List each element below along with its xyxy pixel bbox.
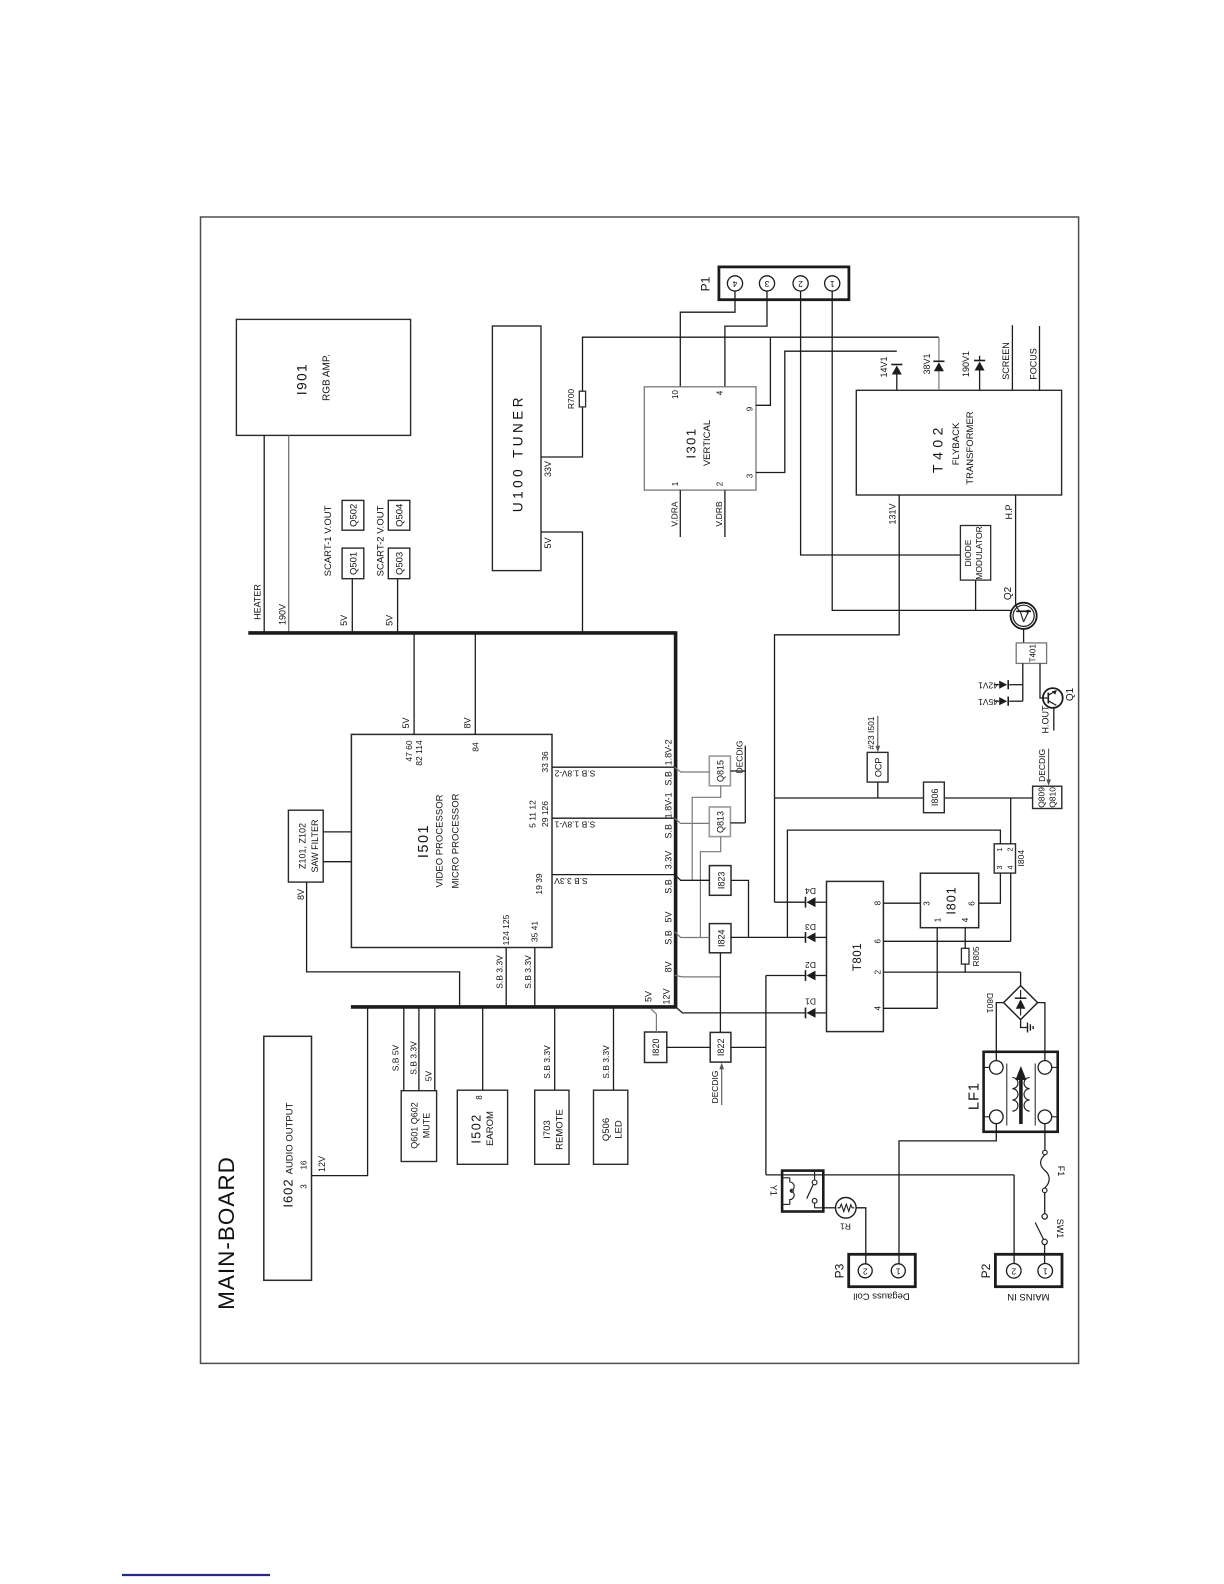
IC I602 AUDIO OUTPUT — [264, 1036, 312, 1280]
svg-text:P3: P3 — [833, 1263, 847, 1278]
block OCP — [867, 752, 888, 782]
svg-text:T401: T401 — [1029, 644, 1038, 663]
diode D4 — [775, 901, 806, 903]
svg-text:I501: I501 — [416, 824, 432, 858]
svg-text:5V: 5V — [543, 537, 553, 548]
wire I501 pins 19/39 to bus (S.B 3.3V) — [552, 874, 675, 876]
coil LF1 right winding — [1034, 1064, 1036, 1126]
wire S.B 3.3V to MUTE — [418, 1007, 420, 1091]
svg-text:45V1: 45V1 — [978, 697, 998, 707]
svg-text:82 114: 82 114 — [414, 740, 424, 766]
svg-text:R700: R700 — [566, 389, 576, 410]
svg-text:P2: P2 — [979, 1263, 993, 1278]
border frame — [201, 217, 1079, 1363]
wire DECDIG arrow into I822 — [721, 1066, 723, 1105]
svg-text:S.B 1.8V-2: S.B 1.8V-2 — [554, 769, 595, 779]
wire D2 node down to relay feed — [765, 976, 767, 1175]
svg-text:Q1: Q1 — [1065, 687, 1076, 701]
svg-text:I824: I824 — [716, 929, 726, 947]
svg-text:190V1: 190V1 — [961, 351, 971, 377]
svg-text:1: 1 — [934, 917, 943, 922]
svg-text:10: 10 — [671, 390, 680, 399]
wire S.B 1.8V-2 tap to Q815 — [675, 767, 710, 772]
wire I804 pin 1 feed from D3 node — [787, 830, 1000, 937]
wire SAW to I501 (lower) — [323, 861, 351, 863]
wire 33V line A (R700 to 38V1) — [583, 337, 939, 391]
wire D801 right vertex to LF1 — [1038, 1003, 1045, 1061]
svg-text:T801: T801 — [852, 943, 864, 971]
svg-text:2: 2 — [716, 481, 725, 486]
wire diode modulator to Q2 base line — [975, 580, 977, 610]
diode 42V1 — [1009, 684, 1023, 686]
svg-text:H.OUT: H.OUT — [1041, 705, 1051, 734]
transistor Q2 — [1011, 603, 1037, 629]
svg-text:SAW FILTER: SAW FILTER — [310, 819, 320, 873]
svg-text:D1: D1 — [805, 996, 816, 1006]
svg-text:4: 4 — [732, 279, 737, 289]
svg-text:I801: I801 — [944, 886, 958, 914]
svg-text:S.B 3.3V: S.B 3.3V — [408, 1041, 418, 1075]
svg-text:H.P: H.P — [1004, 504, 1014, 519]
svg-text:#23 I501: #23 I501 — [866, 716, 876, 749]
svg-text:D801: D801 — [985, 993, 995, 1014]
svg-text:Q502: Q502 — [349, 504, 360, 527]
svg-text:TRANSFORMER: TRANSFORMER — [965, 411, 976, 485]
svg-text:Y1: Y1 — [769, 1185, 779, 1196]
bus S.B vertical — [674, 631, 678, 1008]
wire Q813 out to DECDIG node — [730, 822, 745, 824]
wire 33V from tuner to R700 — [541, 407, 583, 457]
wire DECDIG node vertical (Q815/Q813) — [744, 746, 746, 823]
transistor Q504 — [388, 500, 410, 530]
diode D2 — [766, 975, 805, 977]
svg-text:D4: D4 — [805, 886, 816, 896]
svg-text:MAINS IN: MAINS IN — [1007, 1291, 1049, 1302]
wire I820 to I822 — [667, 1046, 710, 1048]
svg-text:19 39: 19 39 — [534, 873, 544, 895]
svg-text:8: 8 — [874, 900, 883, 905]
svg-text:35 41: 35 41 — [530, 921, 540, 943]
wire 8V tap to I824/I822 link — [675, 975, 721, 977]
wire H.P from T402 to Q2 — [1015, 495, 1017, 606]
svg-text:Q501: Q501 — [349, 552, 360, 575]
svg-text:VERTICAL: VERTICAL — [702, 420, 713, 466]
svg-text:2: 2 — [874, 969, 883, 974]
wire LF1 bottom-right to fuse F1 — [1044, 1124, 1046, 1151]
svg-text:5V: 5V — [643, 991, 653, 1002]
wire 5V bus to I501 pins 47/60/82/114 — [413, 633, 415, 735]
pin 1 of P3 — [891, 1264, 905, 1278]
svg-text:5V: 5V — [384, 615, 394, 626]
fuse F1 — [1043, 1150, 1048, 1155]
bus S.B horizontal (lower) — [351, 1005, 676, 1009]
svg-text:38V1: 38V1 — [922, 353, 932, 374]
svg-text:R805: R805 — [971, 946, 981, 967]
wire D801 left vertex to LF1 — [996, 1003, 1003, 1061]
svg-text:12V: 12V — [661, 988, 671, 1004]
wire F1 to SW1 — [1044, 1193, 1046, 1214]
diode 45V1 — [1009, 700, 1023, 702]
svg-text:3.3V: 3.3V — [664, 851, 674, 870]
wire relay feed line (I822 node through Y1 to P2 pin2) — [766, 1174, 1014, 1176]
svg-text:4: 4 — [874, 1006, 883, 1011]
svg-text:3: 3 — [995, 865, 1004, 869]
svg-text:REMOTE: REMOTE — [555, 1109, 566, 1150]
svg-text:1: 1 — [671, 481, 680, 486]
svg-text:S.B: S.B — [664, 879, 674, 894]
IC I301 VERTICAL — [644, 387, 756, 490]
svg-text:TUNER: TUNER — [511, 394, 526, 458]
svg-text:I602: I602 — [280, 1178, 295, 1207]
wire FOCUS — [1039, 326, 1041, 390]
svg-text:SW1: SW1 — [1055, 1219, 1065, 1239]
wire SAW to I501 (upper) — [323, 831, 351, 833]
transistor Q501 — [342, 548, 364, 579]
svg-text:124 125: 124 125 — [501, 914, 511, 945]
svg-text:1.8V-1: 1.8V-1 — [664, 792, 674, 818]
svg-text:Z101, Z102: Z101, Z102 — [297, 823, 307, 869]
wire I824 bottom to I822 — [719, 953, 721, 1033]
block I901 RGB AMP — [236, 319, 410, 435]
svg-text:I502: I502 — [469, 1113, 483, 1143]
svg-text:16: 16 — [299, 1160, 308, 1169]
svg-text:Degauss Coil: Degauss Coil — [853, 1290, 910, 1301]
wire I822 out to relay line — [731, 1046, 766, 1048]
svg-text:SCART-2 V.OUT: SCART-2 V.OUT — [376, 505, 387, 576]
svg-text:S.B 3.3V: S.B 3.3V — [554, 876, 588, 886]
wire Q815 out to DECDIG node — [730, 770, 745, 772]
switch SW1 — [1042, 1214, 1047, 1219]
svg-text:FOCUS: FOCUS — [1029, 348, 1039, 380]
wire R1 to P3 pin2 — [856, 1208, 866, 1264]
svg-text:I901: I901 — [295, 363, 310, 395]
wire T401 left pin down (42V1/45V1 node) — [1022, 663, 1024, 701]
svg-text:5V: 5V — [401, 717, 411, 728]
wire S.B 5V to MUTE — [403, 1007, 405, 1091]
wire P1-1 to Q2 base — [832, 291, 1011, 610]
svg-text:12V: 12V — [317, 1156, 327, 1172]
wire I501 pins 124/125 to S.B bus — [505, 948, 507, 1007]
transistor Q815 — [709, 756, 730, 786]
svg-text:4: 4 — [1005, 865, 1014, 869]
svg-text:DECDIG: DECDIG — [735, 740, 745, 773]
svg-text:VIDEO PROCESSOR: VIDEO PROCESSOR — [435, 794, 446, 887]
wire Q501 5V to bus — [351, 579, 353, 633]
transformer T801 — [827, 881, 884, 1031]
block I804 — [994, 844, 1015, 873]
svg-text:5 11 12: 5 11 12 — [527, 800, 537, 828]
transistor Q813 — [709, 807, 730, 837]
wire R805 to T801 pin 2 line — [964, 964, 966, 972]
svg-text:4: 4 — [716, 390, 725, 395]
resistor R700 — [579, 391, 585, 407]
svg-text:3: 3 — [746, 473, 755, 478]
wire I804 pin 2 from OCP line — [1010, 798, 1012, 844]
svg-text:33 36: 33 36 — [540, 751, 550, 773]
svg-text:8V: 8V — [296, 889, 306, 900]
svg-text:I823: I823 — [716, 872, 726, 890]
svg-text:P1: P1 — [699, 276, 713, 291]
svg-text:5V: 5V — [339, 615, 349, 626]
svg-text:42V1: 42V1 — [978, 680, 998, 690]
svg-text:DIODE: DIODE — [963, 539, 973, 566]
wire I501 pin 33/36 to bus (S.B 1.8V-2) — [552, 766, 675, 768]
wire T401 right pin to Q1 base — [1040, 663, 1043, 698]
svg-text:6: 6 — [874, 939, 883, 944]
wire I501 pins 35/41 to S.B bus — [534, 948, 536, 1007]
block I820 — [645, 1032, 667, 1063]
block I823 — [709, 866, 731, 896]
terminal LF1 bottom-right — [1038, 1110, 1052, 1124]
switch contact of Y1 — [814, 1172, 816, 1180]
wire SCREEN — [1011, 325, 1013, 390]
transistor Q503 — [388, 548, 410, 579]
svg-text:Q503: Q503 — [395, 552, 406, 575]
svg-text:I820: I820 — [651, 1039, 661, 1057]
svg-text:3: 3 — [299, 1184, 308, 1189]
wire Q503 5V to bus — [397, 579, 399, 633]
wire S.B 5V tap to I824 — [675, 932, 710, 938]
svg-text:MICRO PROCESSOR: MICRO PROCESSOR — [451, 793, 462, 888]
resistor R805 — [961, 948, 969, 964]
wire 12V tap to D1 line — [676, 1007, 805, 1013]
svg-text:S.B: S.B — [664, 824, 674, 839]
svg-text:8V: 8V — [664, 961, 674, 972]
relay Y1 — [782, 1171, 823, 1212]
transformer T401 — [1016, 643, 1046, 664]
arrow LF1 (energy flow) — [1019, 1076, 1023, 1124]
pin 4 of P1 — [727, 276, 742, 291]
connector P2 MAINS IN — [995, 1254, 1062, 1286]
svg-text:Q810: Q810 — [1048, 787, 1058, 808]
wire Q2 emitter to T401 — [1023, 629, 1025, 643]
svg-text:SCART-1 V.OUT: SCART-1 V.OUT — [323, 505, 334, 576]
diode D1 — [805, 1008, 807, 1019]
diode D3 — [731, 936, 805, 938]
wire S.B 3.3V to I703 — [554, 1007, 556, 1090]
svg-text:8: 8 — [475, 1095, 484, 1100]
svg-text:MAIN-BOARD: MAIN-BOARD — [214, 1156, 239, 1310]
svg-text:S.B 5V: S.B 5V — [391, 1044, 401, 1071]
wire HEATER (I901 to 5V bus) — [263, 435, 265, 633]
svg-text:I703: I703 — [542, 1120, 553, 1139]
connector P1 — [719, 267, 849, 300]
svg-text:2: 2 — [1011, 1267, 1016, 1277]
footer rule (blue) — [122, 1574, 270, 1576]
wire P1-4 to I301 pin 10 — [680, 291, 735, 387]
wire I502 pin 8 to S.B bus — [482, 1007, 484, 1090]
svg-text:S.B: S.B — [664, 930, 674, 945]
wire T801 pin 8 to I801 pin 3 — [883, 902, 920, 904]
svg-text:DECDIG: DECDIG — [1037, 749, 1047, 782]
connector P3 Degauss Coil — [849, 1254, 916, 1286]
wire 8V bus to I501 pin 84 — [474, 633, 476, 735]
wire I801 pin 6 to I804 pin 3 — [979, 873, 1001, 903]
svg-text:1: 1 — [830, 279, 835, 289]
svg-text:LED: LED — [614, 1120, 625, 1139]
svg-text:I301: I301 — [683, 427, 698, 458]
wire Q815 bottom to 3.3V line — [692, 786, 721, 881]
block U100 TUNER — [492, 326, 541, 571]
wire 5V tap to I820 — [651, 1009, 657, 1032]
block Q601 Q602 MUTE — [401, 1091, 436, 1162]
svg-text:LF1: LF1 — [966, 1082, 982, 1110]
wire T801 pin 4 to I801 pin 1 — [883, 928, 937, 1009]
wire P1-2 to diode modulator — [801, 291, 961, 555]
svg-text:33V: 33V — [543, 461, 553, 477]
block I806 — [924, 782, 945, 813]
terminal LF1 bottom-left — [990, 1110, 1004, 1124]
filter Z101 Z102 SAW FILTER — [288, 810, 323, 882]
svg-text:Q813: Q813 — [715, 811, 725, 833]
svg-text:S.B 3.3V: S.B 3.3V — [494, 955, 504, 989]
svg-text:I822: I822 — [716, 1039, 726, 1057]
wire H.OUT from Q1 emitter — [1053, 707, 1055, 731]
terminal LF1 top-right — [1038, 1061, 1052, 1075]
transistor Q502 — [342, 500, 364, 530]
svg-text:Q504: Q504 — [395, 504, 406, 527]
svg-text:4: 4 — [961, 917, 970, 922]
pin 3 of P1 — [759, 276, 774, 291]
svg-text:Q815: Q815 — [715, 760, 725, 782]
svg-text:Q2: Q2 — [1003, 586, 1014, 600]
svg-text:S.B 3.3V: S.B 3.3V — [601, 1045, 611, 1079]
svg-text:29 126: 29 126 — [540, 801, 550, 827]
svg-text:2: 2 — [863, 1267, 868, 1277]
diode 190V1 — [979, 356, 981, 361]
IC I502 EAROM — [457, 1090, 507, 1164]
svg-text:FLYBACK: FLYBACK — [951, 422, 962, 465]
wire V.DRB from I301 pin 2 — [724, 490, 726, 537]
wire P1-3 to I301 pin 4 — [725, 291, 767, 387]
wire OCP to 131V/OCP line — [877, 782, 879, 798]
wire OCP line (131V node to Q809/Q810) — [775, 797, 1033, 799]
wire 8V from SAW filter to S.B bus — [307, 882, 460, 1007]
wire 5V from tuner to bus — [541, 532, 583, 633]
wire S.B 3.3V to Q506 — [613, 1007, 615, 1090]
svg-text:EAROM: EAROM — [485, 1111, 496, 1146]
wire I301 pin 9 to 33V line — [756, 337, 770, 405]
svg-text:Q506: Q506 — [601, 1118, 612, 1141]
bus 5V/supply horizontal (upper) — [248, 631, 675, 635]
svg-text:SCREEN: SCREEN — [1001, 342, 1011, 380]
wire 12V from I602 pin16 to S.B bus — [312, 1007, 368, 1176]
svg-text:F1: F1 — [1056, 1166, 1066, 1177]
svg-text:Q809: Q809 — [1037, 787, 1047, 808]
wire Q813 bottom to 5V line — [700, 837, 720, 938]
svg-text:3: 3 — [923, 901, 932, 906]
block Q506 LED — [594, 1090, 628, 1164]
wire #23 I501 arrow into OCP — [877, 716, 879, 749]
svg-text:47 60: 47 60 — [404, 740, 414, 762]
wire 131V from T402 down-left to D4 feed — [775, 495, 900, 902]
svg-text:S.B: S.B — [664, 771, 674, 786]
pin 1 of P2 — [1038, 1264, 1053, 1279]
svg-text:AUDIO OUTPUT: AUDIO OUTPUT — [285, 1102, 296, 1174]
svg-text:DECDIG: DECDIG — [710, 1070, 720, 1103]
svg-text:6: 6 — [968, 901, 977, 906]
svg-text:V.DRB: V.DRB — [714, 501, 724, 527]
wire SW1 to P2 pin1 — [1044, 1245, 1046, 1264]
wire I801 pin 4 to R805 — [964, 928, 966, 949]
svg-text:S.B 3.3V: S.B 3.3V — [542, 1045, 552, 1079]
svg-text:1: 1 — [995, 847, 1004, 851]
svg-text:2: 2 — [798, 279, 803, 289]
svg-text:T402: T402 — [930, 423, 946, 473]
svg-text:R1: R1 — [840, 1221, 851, 1231]
svg-text:I806: I806 — [930, 789, 940, 807]
IC I501 VIDEO/MICRO PROCESSOR — [351, 734, 552, 947]
svg-text:S.B 1.8V-1: S.B 1.8V-1 — [554, 820, 595, 830]
coil of Y1 — [782, 1177, 790, 1179]
svg-text:MODULATOR: MODULATOR — [974, 526, 984, 580]
block Q809 Q810 — [1033, 786, 1062, 808]
svg-text:14V1: 14V1 — [879, 356, 889, 377]
block I822 — [710, 1032, 731, 1062]
wire I804 pin 4 to T801 pin 6 line — [1010, 873, 1012, 941]
block I824 — [709, 924, 731, 953]
svg-text:I804: I804 — [1016, 850, 1026, 867]
pin 1 of P1 — [825, 276, 840, 291]
svg-text:D3: D3 — [805, 922, 816, 932]
terminal LF1 top-left — [990, 1061, 1004, 1075]
wire 190V (I901 to bus) — [288, 435, 290, 633]
bridge rectifier D801 — [1004, 986, 1038, 1020]
svg-text:190V: 190V — [278, 604, 288, 625]
pin 2 of P2 — [1007, 1264, 1022, 1279]
wire T801 pin 2 to D801 — [883, 971, 1020, 973]
pin 2 of P1 — [793, 276, 808, 291]
wire LF1 bottom-left to P3 pin1 — [899, 1124, 996, 1264]
svg-text:RGB AMP.: RGB AMP. — [322, 354, 333, 401]
svg-text:HEATER: HEATER — [253, 584, 263, 620]
svg-text:V.DRA: V.DRA — [669, 501, 679, 527]
block DIODE MODULATOR — [960, 526, 990, 581]
coil LF1 left winding — [1006, 1064, 1008, 1126]
svg-text:1: 1 — [896, 1267, 901, 1277]
svg-text:9: 9 — [746, 406, 755, 411]
ground at D801 — [1021, 1020, 1028, 1028]
svg-text:S.B 3.3V: S.B 3.3V — [523, 955, 533, 989]
svg-text:5V: 5V — [424, 1070, 434, 1081]
svg-text:Q601 Q602: Q601 Q602 — [409, 1102, 419, 1149]
resistor R1 (PTC) — [823, 1207, 835, 1209]
wire I301 pin 3 to 14V1 line — [756, 351, 897, 472]
diode 14V1 — [896, 374, 898, 391]
wire S.B 3.3V tap to I823 — [675, 875, 710, 881]
svg-text:1.8V-2: 1.8V-2 — [664, 739, 674, 765]
transistor Q1 — [1043, 688, 1063, 708]
wire I823 out to D3 line — [731, 880, 749, 937]
svg-text:131V: 131V — [888, 503, 898, 524]
wire DECDIG arrow into Q809/Q810 — [1048, 749, 1050, 783]
svg-text:5V: 5V — [664, 911, 674, 922]
wire S.B 1.8V-1 tap to Q813 — [675, 818, 710, 823]
svg-text:MUTE: MUTE — [421, 1113, 431, 1139]
svg-text:OCP: OCP — [873, 758, 883, 778]
transformer T402 FLYBACK — [856, 390, 1061, 495]
wire T801 pin 6 to I804 pin 4 — [883, 940, 1010, 942]
wire V.DRA from I301 pin 1 — [679, 490, 681, 537]
svg-text:U100: U100 — [511, 466, 526, 512]
wire 5V to MUTE — [434, 1007, 436, 1091]
svg-text:D2: D2 — [805, 960, 816, 970]
wire I501 pins 5/11/12/29/126 to bus (S.B 1.8V-1) — [552, 817, 675, 819]
svg-text:1: 1 — [1043, 1267, 1048, 1277]
svg-text:84: 84 — [470, 742, 480, 752]
IC I703 REMOTE — [535, 1090, 569, 1164]
svg-text:2: 2 — [1005, 847, 1014, 851]
